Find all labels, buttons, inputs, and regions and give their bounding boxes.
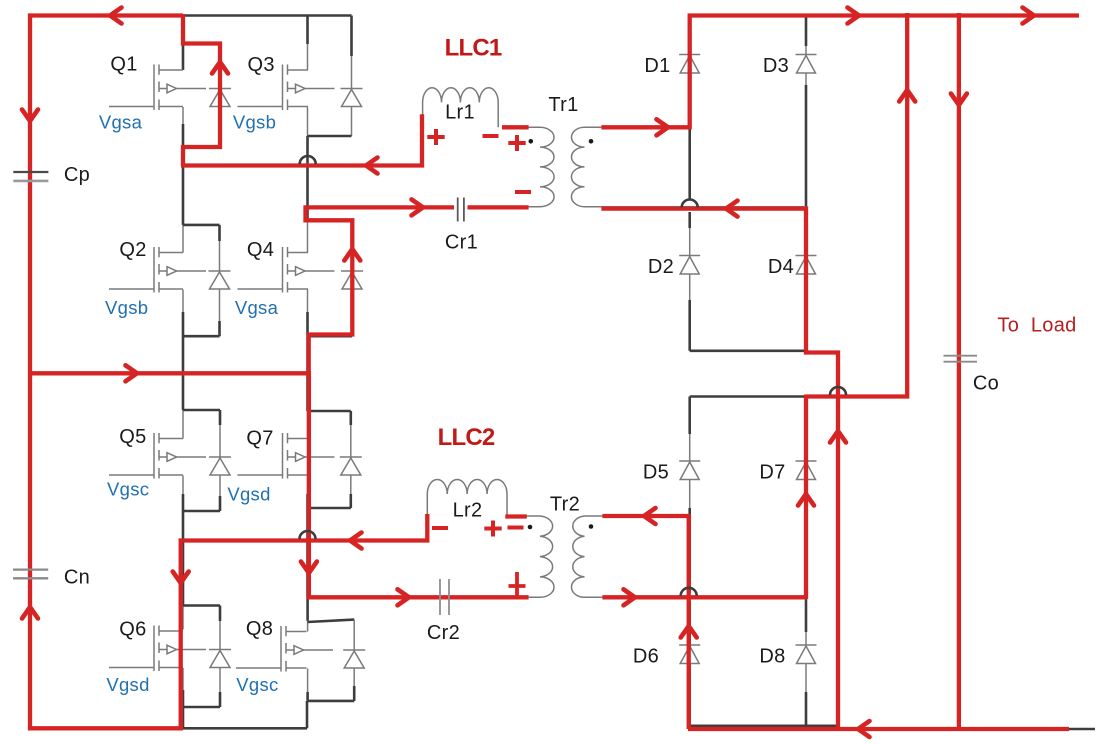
- wire: red arrow Cr1 line: [412, 199, 424, 215]
- wire: Q1 diode top jog: [183, 42, 220, 45]
- wire: red arrow Q1 diode: [212, 62, 228, 74]
- svg-text:D2: D2: [648, 256, 674, 278]
- svg-text:Vgsc: Vgsc: [236, 674, 278, 695]
- transistor Q1: [109, 65, 231, 111]
- svg-text:Vgsa: Vgsa: [235, 297, 279, 318]
- node: minus mark Tr1 primary bottom: [515, 190, 531, 194]
- wire: Q7 diode branch: [350, 411, 352, 508]
- svg-text:Lr2: Lr2: [453, 500, 483, 522]
- transformer Tr2 secondary winding: [571, 516, 584, 597]
- wire: Q2 diode bottom jog: [183, 335, 220, 338]
- svg-text:Q8: Q8: [246, 618, 273, 640]
- wire: red path through D7: [804, 395, 808, 600]
- diode D3: [796, 55, 817, 74]
- wire: red path Cr1 line through Q4 body diode: [306, 207, 529, 373]
- wire: Q1 diode bottom jog: [183, 146, 220, 149]
- svg-text:Vgsc: Vgsc: [107, 479, 149, 500]
- wire: Q2 diode branch: [219, 225, 221, 336]
- svg-text:Cr2: Cr2: [427, 622, 460, 644]
- wire: red path output bottom rail: [688, 727, 1069, 731]
- wire: red arrow top rail: [110, 8, 122, 24]
- diode D1: [679, 55, 700, 74]
- transistor Q5: [109, 433, 231, 479]
- node: Tr2 secondary polarity dot: [589, 524, 594, 529]
- wire: Q3 source lead: [307, 107, 309, 136]
- transistor Q7: [238, 433, 362, 479]
- wire: Q6 diode top jog: [183, 604, 220, 607]
- wire: red path Tr2 secondary top through D6 leg: [602, 516, 688, 729]
- transformer Tr1 secondary winding: [571, 127, 584, 206]
- wire: Q2 diode top jog: [183, 224, 220, 227]
- wire: red path top rail / left rail / bottom rail loop: [30, 16, 183, 729]
- svg-text:Tr2: Tr2: [550, 494, 580, 516]
- transistor Q4: [238, 247, 364, 293]
- wire: top rail of bridge 1: [30, 14, 352, 17]
- svg-text:Cp: Cp: [64, 164, 90, 186]
- svg-text:Cn: Cn: [64, 567, 90, 589]
- svg-text:Co: Co: [973, 373, 999, 395]
- wire: rectifier 2 top rail: [690, 395, 908, 398]
- wire: Q4 drain wire: [306, 207, 309, 221]
- node: wire hop at return x rect2 top: [830, 387, 846, 395]
- wire: red arrow top rail right b: [1023, 8, 1035, 24]
- wire: Q3 diode stub: [350, 16, 353, 57]
- wire: red arrow output up line: [899, 90, 915, 102]
- svg-text:Vgsd: Vgsd: [227, 484, 270, 505]
- inductor Lr2: [427, 479, 507, 516]
- transistor Q3: [238, 65, 363, 111]
- wire: Q1 source lead: [182, 107, 184, 126]
- inductor Lr1: [423, 88, 499, 128]
- node: plus mark Tr2 primary bottom: [509, 572, 526, 600]
- wire: Q3 diode branch: [351, 56, 353, 136]
- wire: rectifier leg D7-D8: [805, 397, 808, 598]
- node: plus mark Tr1 primary top: [508, 135, 525, 151]
- wire: red arrow D7 leg: [798, 494, 814, 506]
- wire: Q6 diode bottom jog: [183, 706, 220, 709]
- wire: red arrow left rail upper: [22, 110, 38, 122]
- node: minus mark Tr2 primary top: [508, 526, 524, 530]
- wire: Q8 diode bottom jog: [308, 700, 355, 703]
- wire: red path phase C through Q6: [181, 514, 428, 728]
- node: minus mark Lr2 left: [432, 526, 448, 530]
- svg-text:D3: D3: [763, 55, 789, 77]
- wire: red path through Q7 and Cr2 line: [309, 371, 529, 597]
- wire: red arrow mid rail: [126, 365, 138, 381]
- wire: Q6 source wire: [182, 668, 184, 692]
- svg-text:D5: D5: [643, 462, 669, 484]
- wire: Q7 drain wire: [306, 373, 309, 411]
- wire: Q5 source wire: [182, 476, 184, 497]
- diode D4: [796, 256, 817, 275]
- wire: Q4 source wire: [307, 290, 309, 315]
- wire: red arrow phase C: [350, 533, 362, 549]
- wire: Tr2 secondary bottom line to D7-D8 leg: [585, 596, 807, 598]
- wire: rectifier leg D1-D2: [688, 16, 691, 200]
- wire: red arrow return line: [830, 431, 846, 443]
- wire: red path through Q1 body diode: [183, 14, 220, 166]
- wire: red path Tr1 secondary bottom through D4 down to bottom rail: [601, 209, 838, 729]
- svg-text:Q7: Q7: [246, 428, 273, 450]
- diode D7: [796, 461, 817, 480]
- wire: phase node C rail (bridge 2): [183, 539, 428, 542]
- wire: red path Tr2 secondary bottom to D7 leg: [602, 595, 806, 599]
- wire: red arrow sec1 top: [657, 119, 669, 135]
- transformer Tr2 primary winding: [506, 516, 554, 597]
- transformer Tr1 primary winding: [502, 127, 554, 207]
- node: wire hop at D6 leg x sec2 bottom: [681, 588, 697, 596]
- wire: Q8 diode top jog (slanted): [308, 620, 355, 622]
- wire: red arrow D6 leg: [681, 626, 697, 638]
- node: Tr2 primary polarity dot: [528, 525, 533, 530]
- svg-text:Vgsa: Vgsa: [99, 112, 143, 133]
- wire: red path mid rail: [30, 371, 309, 375]
- wire: red arrow Q7 path: [301, 562, 317, 574]
- diode D2: [679, 256, 700, 275]
- svg-text:Tr1: Tr1: [548, 94, 578, 116]
- wire: red arrow Cr2 line: [398, 589, 410, 605]
- svg-text:To Load: To Load: [997, 315, 1076, 337]
- wire: red arrow bottom rail: [858, 721, 870, 737]
- wire: Q5 diode bottom jog: [183, 510, 220, 513]
- node: wire hop at D1 leg x sec1 bottom: [682, 200, 698, 208]
- svg-text:Lr1: Lr1: [445, 102, 475, 124]
- svg-text:Q4: Q4: [247, 239, 274, 261]
- wire: bottom rail of bridge 2: [30, 727, 307, 730]
- wire: Q6 drain wire: [182, 541, 185, 606]
- svg-text:Vgsb: Vgsb: [105, 297, 148, 318]
- svg-text:Q3: Q3: [248, 54, 275, 76]
- wire: Q7 diode bottom jog: [308, 507, 351, 510]
- wire: red arrow phase A: [366, 158, 378, 174]
- wire: red path output capacitor branch: [957, 13, 961, 729]
- capacitor Co: [944, 355, 978, 357]
- node: minus mark Lr1 right: [483, 134, 499, 138]
- diode D6: [679, 645, 700, 664]
- wire: red arrow Co line: [951, 94, 967, 106]
- diode D8: [796, 645, 817, 664]
- wire: Q5 drain wire: [182, 373, 185, 410]
- wire: right leg link Q3 to Q4: [306, 136, 309, 207]
- wire: Tr1 secondary top line to D1-D2 leg: [585, 126, 690, 128]
- wire: red path Tr1 primary top lead: [502, 125, 529, 129]
- svg-text:LLC2: LLC2: [438, 424, 495, 451]
- wire: Q2 source wire: [182, 290, 184, 315]
- wire: red path Tr2 primary top lead: [505, 514, 527, 518]
- wire: Q7 source wire: [307, 476, 309, 497]
- wire: Q3 drain stub: [306, 16, 309, 45]
- capacitor Cp: [13, 171, 48, 173]
- wire: rectifier 1 bottom rail: [690, 349, 806, 352]
- svg-text:D8: D8: [759, 646, 785, 668]
- wire: red arrow sec1 bottom: [726, 201, 738, 217]
- wire: Q1 diode branch: [219, 44, 221, 148]
- wire: Q8 drain wire: [306, 597, 309, 621]
- wire: Q1 drain lead: [182, 16, 185, 71]
- wire: output bottom rail: [690, 724, 838, 727]
- wire: Tr2 secondary top line to D5-D6 leg: [585, 515, 689, 517]
- wire: rectifier leg D5-D6: [688, 397, 691, 435]
- svg-text:Q5: Q5: [119, 426, 146, 448]
- wire: red arrow Q4 diode: [344, 249, 360, 261]
- wire: Q4 diode bottom jog: [308, 335, 353, 338]
- wire: red arrow sec2 top: [644, 508, 656, 524]
- diode D5: [679, 461, 700, 480]
- svg-text:Cr1: Cr1: [445, 232, 478, 254]
- svg-text:D1: D1: [644, 55, 670, 77]
- transistor Q8: [236, 626, 365, 672]
- wire: Q2 drain wire: [182, 166, 185, 225]
- svg-text:Q2: Q2: [119, 239, 146, 261]
- wire: left input rail: [29, 16, 32, 729]
- wire: phase node A rail (bridge 1): [183, 164, 421, 167]
- wire: Q8 source wire: [307, 669, 309, 695]
- wire: Q8 diode branch: [353, 620, 355, 701]
- wire: bottom-rail step up to Q8 source jog: [306, 701, 309, 728]
- wire: Q5 diode top jog: [183, 409, 220, 412]
- capacitor Cr2 line: [309, 596, 470, 598]
- wire: red arrow sec2 bottom: [624, 589, 636, 605]
- svg-text:Q6: Q6: [119, 619, 146, 641]
- wire: red arrow left rail lower: [22, 607, 38, 619]
- svg-text:Q1: Q1: [110, 54, 137, 76]
- node: Tr1 secondary polarity dot: [589, 139, 594, 144]
- svg-text:D6: D6: [633, 646, 659, 668]
- node: wire hop at phase A x right leg: [300, 156, 316, 164]
- wire: red path Tr1 secondary top through D1 to top rail: [601, 16, 1079, 128]
- capacitor Cn: [13, 568, 48, 570]
- node: Tr1 primary polarity dot: [529, 139, 534, 144]
- transistor Q6: [109, 626, 231, 672]
- wire: Q4 diode top jog: [308, 220, 353, 223]
- wire: mid rail between bridges: [30, 372, 308, 375]
- wire: Tr1 secondary bottom line to D3-D4 leg: [585, 206, 807, 208]
- wire: Q4 diode branch: [351, 221, 353, 336]
- wire: Q5 diode branch: [219, 410, 221, 511]
- node: wire hop at phase C x right leg: [300, 531, 316, 539]
- wire: rectifier leg D3-D4: [805, 16, 808, 47]
- wire: red arrow top rail right a: [848, 8, 860, 24]
- capacitor Cr1 line: [308, 206, 503, 208]
- wire: Q6 diode branch: [219, 606, 221, 708]
- capacitor Cr1: [458, 198, 464, 222]
- svg-text:LLC1: LLC1: [445, 35, 502, 62]
- svg-text:D7: D7: [759, 462, 785, 484]
- svg-text:Vgsd: Vgsd: [106, 674, 149, 695]
- node: plus mark Lr1 left: [427, 129, 444, 145]
- capacitor Cr2: [440, 579, 449, 615]
- wire: red arrow Q6 path: [173, 572, 189, 584]
- transistor Q2: [109, 247, 231, 293]
- wire: red path rectifier 2 output up to top rail: [806, 13, 907, 397]
- svg-text:D4: D4: [768, 256, 794, 278]
- wire: right leg link Q7 to Q8: [306, 541, 309, 598]
- wire: Q7 diode top jog: [308, 410, 351, 413]
- node: plus mark Lr2 right: [484, 521, 501, 537]
- wire: red path phase A to Lr1: [181, 114, 422, 165]
- wire: Q3 bottom jog: [308, 135, 352, 138]
- svg-text:Vgsb: Vgsb: [233, 112, 276, 133]
